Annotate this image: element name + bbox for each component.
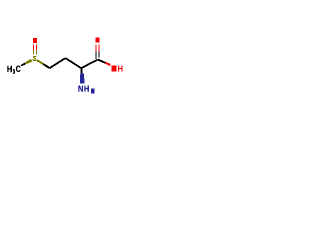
double bond C5=O2 right line black half bbox=[98, 51, 100, 57]
double bond S1=O1 left line olive half bbox=[33, 50, 35, 55]
label N of NH2 bbox=[78, 86, 83, 92]
label subscript 2 of NH2 block bbox=[91, 89, 95, 94]
atom O1 sulfoxide oxygen block bbox=[33, 38, 37, 43]
atom O3 hydroxyl oxygen block bbox=[112, 66, 117, 72]
double bond C5=O2 left line black half bbox=[95, 51, 97, 59]
double bond C5=O2 right line red half bbox=[98, 45, 100, 52]
bond C2-C3 bbox=[50, 58, 66, 68]
double bond C5=O2 left line red half bbox=[95, 45, 97, 52]
bond C3-C4 bbox=[65, 58, 81, 68]
wedge bond C4-N1 blue wedge bbox=[80, 74, 85, 84]
label subscript 3 of H3C bbox=[13, 69, 15, 74]
wedge bond C4-N1 black stem bbox=[81, 68, 83, 74]
label C of H3C bbox=[16, 66, 20, 72]
bond C4-C5 bbox=[81, 60, 98, 69]
bond C5-O3 (black half) bbox=[98, 60, 106, 63]
double bond S1=O1 right line olive half bbox=[35, 50, 37, 55]
label H of H3C bbox=[7, 66, 11, 72]
bond C5-O3 (red half) bbox=[105, 63, 110, 65]
label H of NH2 bbox=[84, 86, 89, 92]
label H of OH bbox=[118, 66, 122, 72]
double bond S1=O1 right line red half bbox=[35, 45, 37, 50]
atom O2 carbonyl oxygen block bbox=[96, 37, 100, 42]
bond S1-C2 (olive half) bbox=[37, 60, 44, 64]
bond S1-C2 (black half) bbox=[43, 64, 49, 68]
bond C1-S1 methyl to sulfur wedge (black half) bbox=[21, 63, 26, 67]
atom S1 sulfur label bbox=[33, 56, 37, 61]
double bond S1=O1 left line red half bbox=[33, 45, 35, 50]
bond C1-S1 methyl to sulfur wedge (olive half) bbox=[25, 59, 33, 65]
